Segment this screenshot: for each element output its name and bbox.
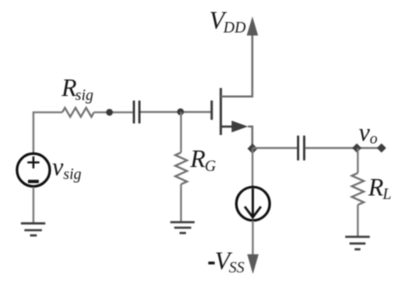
- node B gate node dot: [177, 108, 184, 115]
- capacitor CC2: [298, 136, 304, 161]
- svg-text:R: R: [189, 146, 205, 173]
- label R_sig: [61, 75, 94, 104]
- svg-text:sig: sig: [75, 87, 93, 104]
- label -V_SS: [208, 248, 244, 276]
- wire R_G to ground: [180, 184, 182, 222]
- wire R_sig to capacitor CC1: [94, 111, 133, 113]
- node C source node dot: [247, 144, 257, 154]
- ground for R_G: [170, 222, 194, 233]
- node A junction dot after R_sig: [106, 109, 113, 116]
- label V_DD: [209, 8, 245, 37]
- node E terminal dot v_o: [377, 143, 386, 152]
- resistor R_sig: [62, 108, 94, 117]
- wire CC2 to output terminal: [305, 147, 381, 149]
- node D output node dot: [352, 143, 361, 152]
- svg-text:R: R: [367, 174, 383, 201]
- transistor Q1 drain lead: [221, 34, 253, 97]
- label R_L: [367, 174, 391, 203]
- ground for v_sig: [21, 223, 45, 235]
- resistor R_G: [175, 153, 187, 185]
- transistor Q1 gate bar: [210, 101, 212, 120]
- svg-text:sig: sig: [63, 166, 81, 183]
- svg-text:o: o: [370, 131, 378, 148]
- wire node D down to R_L: [357, 148, 359, 173]
- wire node C down to current source: [252, 149, 254, 186]
- label v_o: [359, 119, 378, 147]
- wire node C to capacitor CC2: [253, 147, 298, 149]
- svg-text:SS: SS: [229, 260, 245, 277]
- voltage source v_sig: [17, 154, 50, 187]
- ground for R_L: [345, 237, 370, 250]
- capacitor CC1: [134, 101, 140, 124]
- wire v_sig to ground: [32, 187, 34, 223]
- wire input top horizontal left of R_sig: [33, 112, 62, 153]
- power arrow -V_SS: [247, 254, 258, 274]
- power arrow V_DD: [247, 17, 258, 36]
- transistor Q1 source lead with arrow: [221, 121, 253, 149]
- label v_sig: [52, 154, 81, 183]
- label R_G: [189, 146, 216, 175]
- transistor Q1 channel bar: [220, 88, 222, 135]
- wire CC1 to gate: [141, 111, 212, 113]
- wire node B down to R_G: [180, 112, 182, 153]
- resistor R_L: [352, 173, 364, 205]
- svg-text:L: L: [382, 186, 392, 203]
- current source I: [236, 187, 269, 220]
- wire current source to -V_SS arrow: [252, 220, 254, 256]
- svg-text:G: G: [205, 158, 216, 175]
- svg-text:DD: DD: [222, 19, 245, 36]
- wire R_L to ground: [357, 205, 359, 237]
